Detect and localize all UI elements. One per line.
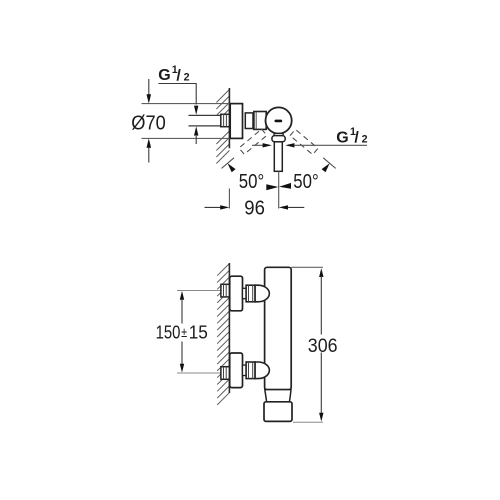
- valve body circle: [266, 107, 292, 133]
- body top edge extension to 306 dim: [291, 266, 323, 268]
- svg-text:G: G: [336, 129, 348, 146]
- Ø70 dimension arrow upper: [147, 79, 152, 104]
- 96 dimension left arrow: [205, 205, 230, 209]
- extension line 150 top: [177, 290, 221, 292]
- wall hatching (bottom view): [217, 264, 229, 405]
- Ø70 extension line bottom: [142, 137, 243, 139]
- neck top union: [243, 288, 247, 298]
- tailpiece top: [221, 284, 230, 297]
- flange top union: [230, 276, 243, 311]
- wall line (top view): [228, 88, 230, 148]
- 96 dimension right arrow: [279, 205, 305, 209]
- svg-text:50°: 50°: [293, 170, 318, 193]
- body taper section: [265, 390, 291, 402]
- wall extension line for 96: [228, 189, 230, 209]
- union nut: [254, 112, 266, 130]
- supply pipe interior mask: [189, 115, 221, 127]
- svg-text:/: /: [354, 130, 359, 147]
- Ø70 dimension arrow lower: [147, 138, 152, 162]
- svg-text:2: 2: [362, 134, 368, 146]
- outlet cap: [264, 402, 292, 422]
- lever stem: [274, 142, 282, 172]
- svg-text:306: 306: [308, 335, 338, 357]
- svg-text:150: 150: [156, 322, 181, 343]
- dashed lever position right (+50°): [239, 129, 267, 154]
- connector piece: [245, 113, 253, 129]
- left 50° extension segment: [222, 158, 235, 169]
- G 1/2 label (right): [336, 126, 367, 147]
- G 1/2 arrow down to pipe: [194, 106, 198, 115]
- cone bottom union: [255, 362, 269, 379]
- svg-text:±: ±: [181, 325, 187, 340]
- angle arrow on left dashed line: [228, 163, 236, 172]
- extension line 150 bottom: [177, 372, 221, 374]
- threaded tailpiece (top view): [221, 114, 230, 126]
- svg-text:/: /: [176, 68, 181, 85]
- supply pipe (top view): [189, 114, 221, 116]
- 306 dimension: [319, 268, 323, 422]
- flange bottom union: [230, 353, 243, 388]
- dashed lever position left (-50°): [290, 129, 318, 154]
- angle arrows at centerline (bowtie): [266, 184, 278, 190]
- escutcheon flange (top view, side profile): [230, 104, 242, 139]
- neck bottom union: [243, 365, 247, 375]
- collar ring: [272, 136, 285, 142]
- G 1/2 leader line (right) with arrows at collar: [252, 144, 264, 146]
- 150±15 dimension: [180, 291, 184, 373]
- collar neck: [274, 133, 283, 135]
- Ø70 extension line top: [142, 103, 244, 105]
- tailpiece bottom: [221, 367, 230, 380]
- svg-text:Ø70: Ø70: [131, 111, 166, 134]
- G 1/2 label (top-left): [158, 64, 189, 84]
- svg-text:50°: 50°: [239, 170, 264, 193]
- wall hatching (top view): [216, 90, 229, 164]
- angle arrow on right dashed line: [322, 163, 330, 172]
- right 50° extension segment: [323, 158, 336, 169]
- svg-text:2: 2: [184, 72, 190, 84]
- G 1/2 arrow up to pipe: [194, 126, 198, 144]
- centerline below stem: [278, 171, 280, 208]
- lever slot: [275, 120, 283, 123]
- body main: [265, 267, 292, 389]
- cone top union: [255, 285, 269, 302]
- svg-text:G: G: [158, 67, 170, 84]
- nut bottom union: [246, 362, 255, 379]
- svg-text:15: 15: [189, 322, 208, 343]
- nut top union: [246, 285, 255, 302]
- wall line (bottom view): [228, 263, 230, 393]
- bottom extension line for 306: [293, 421, 323, 423]
- svg-text:96: 96: [244, 197, 265, 219]
- G 1/2 leader bracket (top-left): [159, 84, 197, 105]
